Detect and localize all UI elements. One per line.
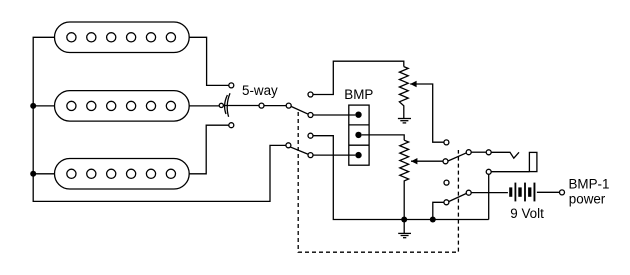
svg-text:power: power	[569, 192, 606, 207]
svg-text:BMP-1: BMP-1	[569, 176, 610, 191]
svg-text:9 Volt: 9 Volt	[510, 206, 544, 221]
svg-text:5-way: 5-way	[242, 83, 278, 98]
svg-text:BMP: BMP	[344, 87, 373, 102]
